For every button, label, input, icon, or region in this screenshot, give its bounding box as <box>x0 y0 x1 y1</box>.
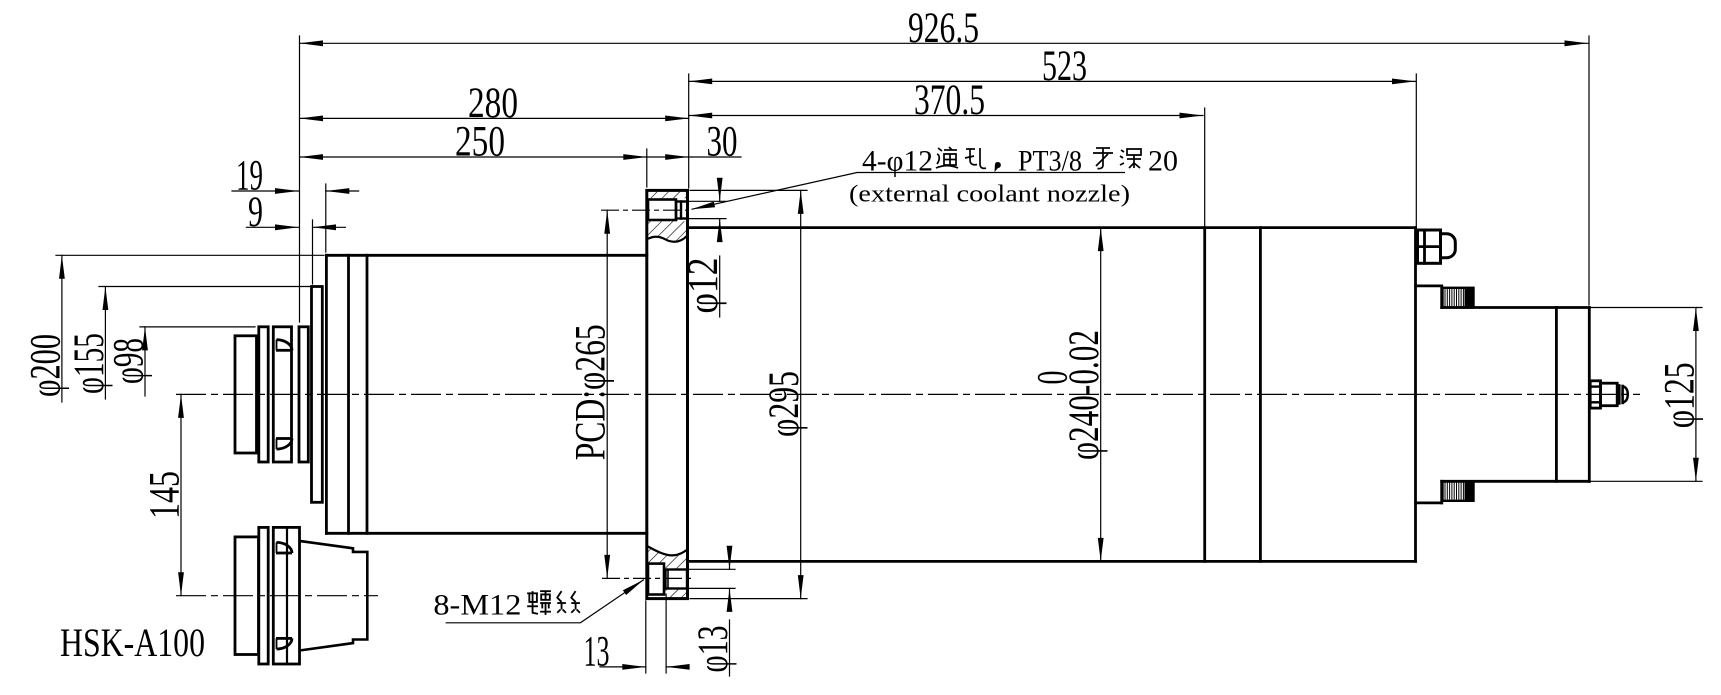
svg-text:20: 20 <box>1148 145 1178 178</box>
rear cylinder seam <box>1555 308 1558 482</box>
svg-text:370.5: 370.5 <box>914 77 985 124</box>
front barrel seam 1 <box>347 255 350 533</box>
flange bottom break line <box>648 546 688 555</box>
svg-text:8-M12: 8-M12 <box>433 589 521 622</box>
holder taper cone <box>300 541 368 651</box>
dim phi240 line <box>1100 228 1102 562</box>
dim 370.5 line <box>689 115 1203 117</box>
svg-text:φ12: φ12 <box>680 258 727 314</box>
threaded plug top <box>1443 288 1474 308</box>
dim 13 line <box>600 666 646 668</box>
dim 145 line <box>180 394 182 595</box>
dim phi13 line <box>729 554 731 570</box>
rear cylinder phi125 outline <box>1442 306 1590 309</box>
dim phi125 line <box>1695 308 1697 482</box>
dim phi295 line <box>800 190 802 598</box>
svg-text:φ13: φ13 <box>690 626 737 673</box>
dim PCD265 line <box>606 210 608 578</box>
svg-text:(external coolant nozzle): (external coolant nozzle) <box>849 182 1130 208</box>
threaded plug bottom <box>1443 481 1474 501</box>
svg-text:145: 145 <box>142 471 189 519</box>
svg-text:φ240-0.02: φ240-0.02 <box>1061 330 1108 460</box>
horizontal extension lines <box>56 254 324 256</box>
spindle nose clamp cap ring <box>235 336 257 453</box>
spindle nose clamp finger housing <box>273 327 291 462</box>
holder phi98 ring <box>259 527 268 664</box>
svg-text:φ200: φ200 <box>22 334 69 397</box>
dim phi200 line <box>61 255 63 402</box>
flange bottom M12 screw <box>666 570 688 589</box>
svg-text:523: 523 <box>1042 43 1087 90</box>
svg-text:PT3/8: PT3/8 <box>1018 145 1082 178</box>
flange top break line <box>648 235 688 241</box>
holder centerline <box>176 595 378 597</box>
front barrel seam 2 <box>366 255 369 533</box>
dim phi12 line <box>719 186 721 201</box>
dim 926.5 line <box>300 42 1589 44</box>
flange phi295 outline <box>647 190 688 598</box>
dim phi98 line <box>144 327 146 396</box>
main body seam 2 <box>1259 228 1262 562</box>
dim 30 line <box>647 156 741 158</box>
dim 9 line <box>246 226 298 228</box>
svg-text:φ98: φ98 <box>106 338 153 384</box>
vertical extension lines <box>299 36 301 322</box>
spindle nose phi98 ring <box>259 327 268 462</box>
top hole centerline <box>601 209 688 211</box>
grease nipple fitting <box>1590 381 1600 408</box>
rear collar outline <box>1416 284 1442 287</box>
coolant hole leader <box>692 173 1126 210</box>
spindle nose front ring <box>299 327 308 462</box>
dim phi155 line <box>104 287 106 400</box>
dim 523 line <box>689 80 1416 82</box>
main body seam 1 <box>1203 228 1206 562</box>
flange top coolant hole counterbore <box>648 200 676 221</box>
svg-text:926.5: 926.5 <box>908 5 979 52</box>
dim 19 line <box>232 190 299 192</box>
flange section hatching <box>648 192 687 199</box>
bottom hole centerline <box>602 577 694 579</box>
electrical connector plug <box>1418 230 1441 263</box>
svg-text:HSK-A100: HSK-A100 <box>60 620 205 665</box>
svg-text:250: 250 <box>455 119 505 166</box>
svg-text:PCD:φ265: PCD:φ265 <box>568 324 615 460</box>
holder flange housing <box>273 527 299 664</box>
svg-text:φ125: φ125 <box>1656 362 1703 428</box>
svg-text:13: 13 <box>584 628 610 675</box>
svg-text:φ295: φ295 <box>761 371 808 437</box>
spindle nose phi155 spacer disk <box>312 287 323 503</box>
svg-text:9: 9 <box>248 189 263 236</box>
flange bottom screw counterbore <box>648 564 664 595</box>
holder clamp cap ring <box>235 537 259 655</box>
screw leader <box>446 580 644 623</box>
flange top hole thread insert <box>676 202 688 219</box>
front barrel phi200 outline <box>325 255 328 533</box>
svg-text:4-φ12: 4-φ12 <box>862 145 933 178</box>
svg-text:30: 30 <box>707 119 738 166</box>
dim 250 line <box>300 156 647 158</box>
dim 280 line <box>300 117 689 119</box>
main body phi240 outline <box>689 226 1416 229</box>
main centerline <box>176 393 1640 395</box>
